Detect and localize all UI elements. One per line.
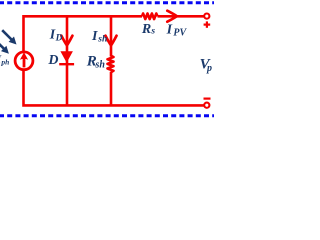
arrowhead current IPV (right) [167,11,177,22]
svg-text:PV: PV [173,27,187,38]
svg-text:ph: ph [0,58,9,67]
arrowhead current ID (down) [61,36,72,46]
diode D (triangle + bar) [59,51,74,64]
plus sign [204,21,211,27]
label Rsh [86,53,106,70]
svg-text:I: I [91,29,98,44]
wire: diode branch [66,16,69,105]
boundary top (dashed blue) [0,1,215,4]
current source arrow (up) [20,52,28,67]
wire: top rail + left branch + bottom rail [24,16,204,105]
photon arrow 2 [0,40,9,54]
current source Iph (circle) [15,52,33,70]
resistor Rsh (shunt, vertical zigzag) [108,56,114,72]
boundary bottom (dashed blue) [0,114,215,117]
wire: top rail right of Rs to + terminal [158,15,204,18]
arrowhead current Ish (down) [106,36,117,46]
svg-text:sh: sh [95,60,106,71]
photon arrow 1 [2,30,16,44]
terminal - (bottom right, open circle) [204,103,209,108]
label ID [49,28,63,44]
svg-text:p: p [206,63,212,74]
svg-text:R: R [141,22,151,37]
label Rs [141,22,156,37]
svg-text:D: D [47,53,58,68]
svg-text:sh: sh [97,34,107,44]
label IPV [166,23,188,39]
label Iph [0,52,9,66]
wire: shunt branch lower [110,72,113,106]
svg-text:I: I [166,23,173,38]
wire: shunt branch upper [110,16,113,56]
terminal + (top right, open circle) [204,14,209,19]
minus sign [204,97,211,99]
svg-text:s: s [150,27,155,37]
resistor Rs (series, zigzag) [142,14,158,20]
svg-text:D: D [55,34,63,44]
label Vp [200,56,212,73]
label Ish [91,29,107,45]
